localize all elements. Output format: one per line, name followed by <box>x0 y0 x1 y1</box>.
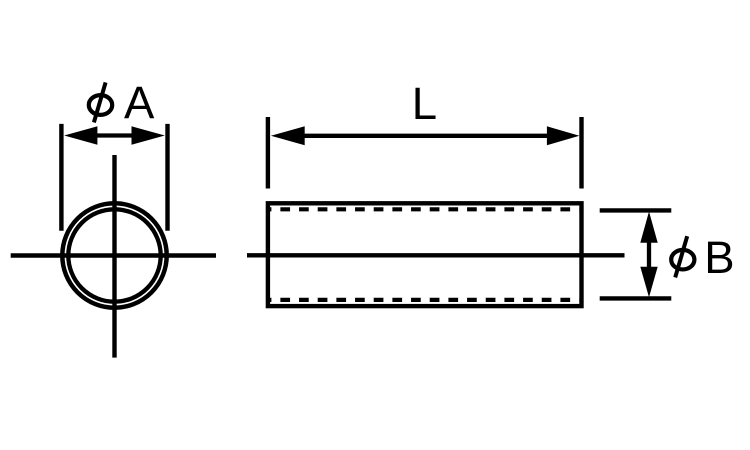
phi A right extension line <box>165 124 169 231</box>
label phi A <box>89 77 155 128</box>
front view horizontal centerline <box>11 253 216 257</box>
label phi B <box>671 232 734 283</box>
side view horizontal centerline <box>247 253 625 257</box>
svg-text:L: L <box>412 78 437 129</box>
front view bore circle (tube ID) <box>68 209 160 301</box>
side view tube outline <box>268 203 582 306</box>
L left extension line <box>266 117 270 189</box>
phi B top extension line <box>600 208 672 212</box>
front view outer circle (tube OD) <box>62 203 166 307</box>
side view bottom hidden line (bore) <box>270 298 579 302</box>
front view vertical centerline <box>112 155 116 358</box>
phi A left extension line <box>59 124 63 231</box>
svg-text:A: A <box>124 77 155 128</box>
phi B dimension line <box>640 212 657 298</box>
side view top hidden line (bore) <box>270 207 579 211</box>
phi B bottom extension line <box>600 296 672 300</box>
L dimension line <box>271 126 580 145</box>
svg-text:B: B <box>704 232 734 283</box>
phi A dimension line <box>64 126 165 144</box>
L right extension line <box>579 117 583 189</box>
